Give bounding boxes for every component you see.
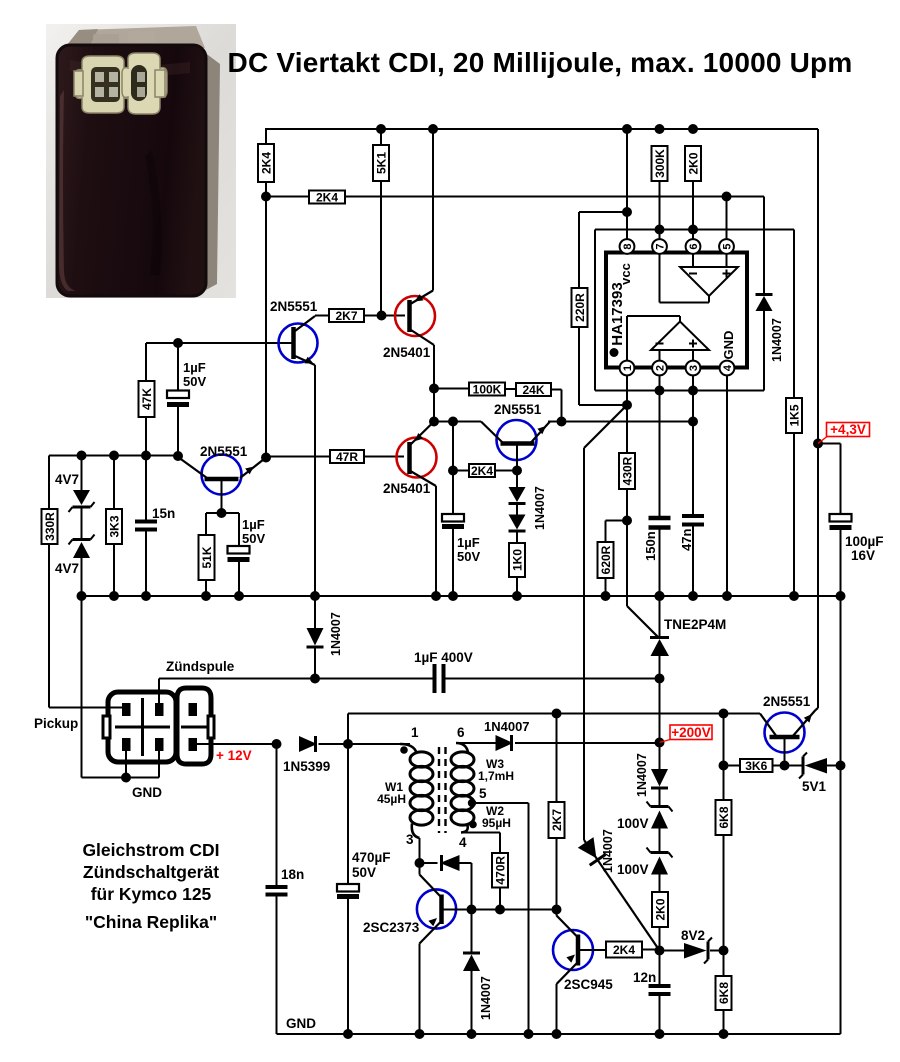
- svg-text:330R: 330R: [43, 512, 57, 541]
- node node +4.3V: [813, 439, 823, 449]
- svg-text:50V: 50V: [352, 865, 376, 880]
- op-amp comparator A (top): [680, 267, 738, 296]
- capacitor 470uF 50V: [337, 884, 359, 892]
- resistor 430R: [619, 453, 635, 489]
- svg-text:2K4: 2K4: [613, 943, 635, 957]
- wire inverter feed corner: [347, 714, 349, 745]
- svg-text:2K4: 2K4: [260, 152, 274, 174]
- wire Q4 collector column: [435, 486, 437, 596]
- transistor Q10 2SC945: [553, 930, 593, 970]
- wire bias wire down leg: [594, 230, 596, 391]
- transformer secondary W3/W2: [456, 743, 468, 752]
- wire 6K8b lead: [723, 951, 725, 977]
- wire tap 5 column: [528, 803, 530, 1034]
- wire baker left lead: [420, 862, 438, 864]
- wire Q9 base wire: [442, 909, 557, 911]
- svg-text:1µF: 1µF: [457, 535, 480, 550]
- wire 220R to pin8: [579, 211, 627, 213]
- capacitor 1uF 50V: [167, 391, 189, 399]
- wire tap 5 wire: [472, 802, 529, 804]
- op-amp U1 HA17393 package: [606, 253, 747, 368]
- wire 5V1 right lead: [827, 765, 841, 767]
- wire Q3 base row: [206, 512, 239, 514]
- node GND junction 12n: [655, 1029, 665, 1039]
- wire 1K0 bottom lead: [516, 577, 518, 596]
- wire freewheel top lead: [471, 910, 473, 954]
- wire supply row mid: [319, 743, 411, 745]
- capacitor 47n: [682, 514, 704, 518]
- wire D5a top lead: [516, 471, 518, 488]
- svg-text:Pickup: Pickup: [34, 716, 78, 731]
- svg-text:4V7: 4V7: [55, 472, 79, 487]
- wire 5K1 bottom lead: [380, 181, 382, 316]
- svg-text:1N4007: 1N4007: [329, 612, 343, 656]
- wire comparator input wire A: [434, 421, 481, 423]
- svg-text:100V: 100V: [617, 862, 649, 877]
- wire TNE cathode lead: [659, 596, 661, 637]
- svg-text:1N4007: 1N4007: [635, 753, 649, 797]
- svg-text:1: 1: [411, 725, 419, 740]
- capacitor 1uF 50V #2: [228, 546, 250, 554]
- wire 47R left lead: [266, 456, 330, 458]
- svg-text:150n: 150n: [643, 531, 658, 561]
- node junction Q2 base: [377, 311, 387, 321]
- wire 220R bottom lead: [578, 327, 580, 405]
- svg-text:100µF: 100µF: [845, 534, 884, 549]
- wire 330R top leg: [48, 456, 50, 510]
- node rail junction 1K0: [512, 591, 522, 601]
- W1 phase dot: [400, 746, 408, 754]
- label +4,3V: [827, 423, 870, 437]
- wire 3K3 top lead: [113, 456, 115, 510]
- wire 3K6 right lead: [773, 765, 785, 767]
- wire pin5 lead: [726, 197, 728, 241]
- svg-text:Gleichstrom CDI: Gleichstrom CDI: [82, 840, 219, 860]
- svg-text:2SC945: 2SC945: [564, 977, 613, 992]
- wire 18n top lead: [276, 744, 278, 887]
- wire 8V2 right lead: [710, 950, 724, 952]
- wire top rail: [266, 128, 818, 130]
- pin 7: [652, 239, 667, 254]
- node junction Q3 base: [217, 508, 227, 518]
- wire 2K4 bottom lead: [265, 182, 267, 458]
- node junction 470uF column: [343, 739, 353, 749]
- svg-text:100V: 100V: [617, 816, 649, 831]
- wire 2K4c right lead: [642, 949, 660, 951]
- node junction pin8 column top: [622, 124, 632, 134]
- wire baker corner down: [471, 863, 473, 910]
- wire pin7-pin6 bias wire: [595, 229, 794, 231]
- svg-text:2: 2: [655, 365, 667, 371]
- comparator B input leads: [659, 350, 661, 361]
- capacitor 100uF 16V: [830, 514, 852, 522]
- svg-text:50V: 50V: [242, 531, 265, 546]
- svg-text:6K8: 6K8: [717, 982, 731, 1004]
- svg-text:45µH: 45µH: [377, 792, 406, 806]
- node junction 2K4 row: [261, 192, 271, 202]
- wire 47n bottom lead: [692, 525, 694, 597]
- wire 100uF bottom lead: [840, 529, 842, 596]
- wire HT feed wire: [515, 742, 660, 744]
- wire 15n top lead: [145, 456, 147, 522]
- node GND junction Q9e: [415, 1029, 425, 1039]
- wire 1uF-3 top lead: [452, 422, 454, 471]
- wire 1uF-2 bottom lead: [238, 560, 240, 596]
- wire HT z1 link: [659, 788, 661, 806]
- wire ignition coil wire left: [159, 678, 434, 680]
- wire gnd pin left lead: [125, 751, 127, 778]
- wire 470R bottom lead: [499, 888, 501, 910]
- wire 2K4-2 left lead: [453, 470, 469, 472]
- wire 8V2 left lead: [660, 950, 685, 952]
- wire inverter top wire: [348, 713, 760, 715]
- node node pin1 output: [622, 400, 632, 410]
- wire zener bottom lead: [81, 558, 83, 778]
- wire pin6 lead: [692, 181, 694, 240]
- wire TNE gate diagonal: [627, 606, 658, 637]
- wire baker right lead: [460, 862, 472, 864]
- svg-text:18n: 18n: [281, 867, 304, 882]
- svg-text:vcc: vcc: [618, 263, 633, 285]
- wire pin2 column: [659, 375, 661, 516]
- zener diode 8V2: [684, 943, 707, 959]
- svg-text:GND: GND: [286, 1016, 316, 1031]
- wire 3K6 left lead: [724, 765, 741, 767]
- wire 2K0b bottom lead: [659, 927, 661, 951]
- svg-text:16V: 16V: [851, 548, 875, 563]
- svg-text:3: 3: [406, 832, 414, 847]
- wire pin4 xfmr wire: [461, 832, 500, 834]
- svg-text:95µH: 95µH: [482, 816, 511, 830]
- wire gate pulse diagonal: [584, 840, 660, 951]
- node junction TNE anode: [655, 674, 665, 684]
- svg-text:470µF: 470µF: [352, 850, 391, 865]
- svg-text:GND: GND: [132, 785, 162, 800]
- svg-text:+200V: +200V: [671, 725, 710, 740]
- photo CDI unit right side face: [204, 52, 220, 291]
- svg-text:1K0: 1K0: [511, 549, 525, 571]
- wire 100uF top lead: [840, 444, 842, 515]
- svg-text:1N4007: 1N4007: [533, 486, 547, 530]
- wire 1K5 top lead: [793, 230, 795, 399]
- node junction Q6 base: [780, 761, 790, 771]
- svg-text:8: 8: [622, 243, 634, 249]
- wire 1uF-3 bottom lead: [452, 527, 454, 596]
- svg-text:300K: 300K: [653, 149, 667, 178]
- wire HT diode lead: [659, 743, 661, 770]
- W2 tap node: [468, 799, 476, 807]
- wire Q10 base lead: [578, 949, 606, 951]
- node junction 2K4-2 lead: [448, 466, 458, 476]
- pin 2: [652, 361, 667, 376]
- wire pin4 column: [726, 375, 728, 596]
- wire 6K8b bottom lead: [723, 1010, 725, 1034]
- wire 1K5 bottom lead: [793, 433, 795, 596]
- resistor 470R: [492, 853, 508, 888]
- wire ignition coil wire right: [445, 678, 660, 680]
- svg-text:+ 12V: + 12V: [216, 748, 252, 763]
- resistor 2K7: [329, 309, 364, 322]
- svg-text:47n: 47n: [679, 529, 694, 551]
- wire comparator diagonal: [584, 405, 627, 448]
- svg-text:für Kymco 125: für Kymco 125: [91, 884, 212, 904]
- node GND junction 6K8b: [719, 1029, 729, 1039]
- wire freewheel bottom lead: [471, 971, 473, 1034]
- resistor 2K4: [606, 942, 642, 958]
- wire 2K7 to Q2 base: [364, 315, 405, 317]
- W2 phase dot: [469, 821, 477, 829]
- wire right edge vertical: [817, 129, 819, 708]
- svg-text:24K: 24K: [522, 383, 544, 397]
- svg-text:2SC2373: 2SC2373: [363, 920, 420, 935]
- wire TNE anode lead: [659, 656, 661, 743]
- transistor Q1 2N5551: [279, 324, 318, 363]
- capacitor 12n: [649, 984, 671, 988]
- node junction Q5 emitter wire: [557, 417, 567, 427]
- svg-text:+4,3V: +4,3V: [830, 422, 866, 437]
- wire 100K-24K link: [505, 388, 516, 390]
- wire 220R top lead: [578, 212, 580, 288]
- diode 1N4007 #3: [496, 735, 514, 751]
- wire 2K4 top lead: [265, 128, 267, 144]
- node rail junction 15n: [141, 591, 151, 601]
- wire Q6 base lead: [784, 737, 786, 766]
- resistor 2K7: [549, 802, 565, 838]
- wire Q2 collector column: [433, 345, 435, 422]
- node junction cap column: [448, 417, 458, 427]
- wire 12n top lead: [659, 951, 661, 987]
- wire 1K0 top lead: [516, 531, 518, 543]
- node junction 1uF/Q3 collector: [173, 451, 183, 461]
- resistor 2K4: [258, 144, 274, 182]
- transistor Q3 2N5551: [202, 455, 242, 495]
- photo CDI unit right connector: [122, 53, 167, 114]
- diode 1N4007 freewheel: [463, 952, 480, 955]
- svg-text:2N5551: 2N5551: [494, 402, 542, 417]
- node junction 5V1 right: [836, 761, 846, 771]
- node junction zener col: [77, 451, 87, 461]
- pin 4: [720, 361, 735, 376]
- node rail junction Q1e: [310, 591, 320, 601]
- node junction 3K6: [719, 761, 729, 771]
- node junction 2K7 top: [552, 709, 562, 719]
- node node oscillator control: [655, 946, 665, 956]
- resistor 2K4: [309, 191, 345, 204]
- wire gate pulse column: [583, 448, 585, 840]
- svg-text:1µF: 1µF: [242, 517, 265, 532]
- wire comparator input wire B: [548, 421, 693, 423]
- svg-text:3: 3: [688, 365, 700, 371]
- capacitor 1uF 50V #3: [442, 514, 464, 522]
- node junction 6K8b top: [719, 946, 729, 956]
- wire 6K8a lead: [723, 766, 725, 801]
- node GND junction tap5: [524, 1029, 534, 1039]
- svg-text:2N5401: 2N5401: [383, 481, 431, 496]
- wire 2K7 bottom lead: [556, 838, 558, 910]
- svg-text:1µF: 1µF: [183, 360, 206, 375]
- svg-text:3K6: 3K6: [745, 759, 767, 773]
- resistor 24K: [516, 383, 551, 396]
- wire row 2K4h left: [266, 196, 309, 198]
- node junction pin5 top wire: [722, 192, 732, 202]
- node rail junction 150n: [655, 591, 665, 601]
- node rail junction 1K5: [789, 591, 799, 601]
- wire 100K left lead: [434, 388, 469, 390]
- capacitor 15n: [135, 520, 157, 524]
- resistor 6K8: [716, 800, 732, 835]
- wire 620R top link: [606, 520, 628, 522]
- wire 1uF-2 top lead: [238, 513, 240, 546]
- svg-text:6: 6: [457, 725, 465, 740]
- photo CDI unit top face: [63, 26, 205, 50]
- svg-text:2K4: 2K4: [471, 464, 493, 478]
- svg-text:3K3: 3K3: [108, 515, 122, 537]
- svg-text:2K4: 2K4: [316, 191, 338, 205]
- resistor 6K8: [716, 976, 732, 1010]
- wire 6K8a top lead: [723, 714, 725, 766]
- wire 3K3 bottom lead: [113, 544, 115, 596]
- diode 1N4007: [756, 296, 773, 311]
- node junction Q2 emitter column top: [428, 124, 438, 134]
- resistor 100K: [469, 383, 505, 396]
- node GND junction 470uF: [343, 1029, 353, 1039]
- svg-text:1K5: 1K5: [788, 404, 802, 426]
- resistor 2K4: [469, 464, 495, 477]
- wire 18n bottom lead: [276, 895, 278, 1035]
- label +200V: [670, 725, 712, 740]
- svg-text:"China Replika": "China Replika": [85, 912, 217, 932]
- connector plug left body: [108, 692, 176, 762]
- svg-text:1N4007: 1N4007: [484, 719, 530, 734]
- wire 47R to Q4 base: [364, 456, 404, 458]
- wire 1uF top lead: [177, 343, 179, 391]
- photo CDI unit backdrop: [46, 24, 236, 298]
- wire D-315 top lead: [314, 596, 316, 628]
- diode 1N5399: [299, 736, 317, 752]
- op-amp comparator B (bottom): [651, 322, 709, 351]
- resistor 620R: [598, 542, 614, 578]
- node junction 1uF base: [173, 338, 183, 348]
- node rail junction 1uF3: [448, 591, 458, 601]
- wire 220R to pin1 node: [579, 404, 627, 406]
- node junction 3K3 top: [109, 451, 119, 461]
- wire pickup wire: [49, 707, 126, 709]
- node junction 620R tap: [622, 516, 632, 526]
- transformer core: [438, 747, 440, 833]
- resistor 1K5: [786, 398, 802, 433]
- wire 470uF top lead: [347, 744, 349, 884]
- wire Q1 emitter column: [314, 365, 316, 596]
- svg-text:4V7: 4V7: [55, 561, 79, 576]
- transistor Q6 2N5551: [765, 713, 805, 753]
- svg-text:2K0: 2K0: [654, 898, 668, 920]
- wire gnd link right: [126, 777, 159, 779]
- diode 1N4007 diagonal: [578, 837, 597, 858]
- resistor 2K0: [685, 146, 701, 181]
- wire 15n bottom lead: [145, 530, 147, 597]
- pin 6: [686, 239, 701, 254]
- node junction Q5 base: [512, 466, 522, 476]
- node junction 2K4 column bottom: [261, 453, 271, 463]
- svg-text:1: 1: [622, 365, 634, 371]
- photo CDI unit body: [57, 45, 206, 296]
- wire +12V pin lead: [197, 743, 277, 745]
- connector left pins: [123, 704, 131, 716]
- wire pin5 net corner down: [763, 197, 765, 294]
- wire 1N4007 anode lead: [763, 311, 765, 391]
- wire 2K7 top lead: [556, 714, 558, 803]
- svg-text:DC Viertakt CDI, 20 Millijoule: DC Viertakt CDI, 20 Millijoule, max. 100…: [228, 47, 853, 78]
- svg-text:1,7mH: 1,7mH: [478, 769, 514, 783]
- node junction primary bottom: [415, 858, 425, 868]
- svg-text:GND: GND: [721, 331, 736, 360]
- svg-text:1N5399: 1N5399: [283, 759, 330, 774]
- resistor 47R: [330, 450, 364, 463]
- transistor Q4 2N5401: [397, 438, 437, 478]
- capacitor 18n: [266, 885, 288, 889]
- diode 1N4007 HT: [651, 769, 668, 787]
- svg-text:2K0: 2K0: [687, 152, 701, 174]
- wire pin7 lead: [659, 181, 661, 240]
- node junction baker/base: [467, 905, 477, 915]
- svg-text:620R: 620R: [599, 545, 613, 574]
- capacitor 1uF 400V: [433, 664, 437, 693]
- node GND junction Q10e: [552, 1029, 562, 1039]
- wire 6K8a bottom lead: [723, 835, 725, 951]
- wire 430R bottom lead: [626, 489, 628, 606]
- svg-text:1N4007: 1N4007: [479, 976, 493, 1020]
- resistor 300K: [652, 146, 668, 181]
- svg-text:2N5551: 2N5551: [763, 694, 811, 709]
- transistor Q5 2N5551: [497, 420, 537, 460]
- wire IC output wire: [595, 390, 764, 392]
- comparator A input leads: [692, 253, 694, 267]
- wire 620R top lead: [605, 521, 607, 543]
- comparator B output to pin1: [679, 316, 681, 322]
- transistor Q9 2SC2373: [417, 889, 456, 928]
- wire 51K top lead: [205, 513, 207, 535]
- wire 1uF-3 mid lead: [452, 471, 454, 515]
- wire Q1 base wire: [146, 342, 292, 344]
- wire pin3 column xfmr: [419, 838, 421, 863]
- wire zener top lead: [81, 456, 83, 491]
- svg-text:8V2: 8V2: [681, 928, 705, 943]
- resistor 2K0: [652, 892, 668, 927]
- node junction 470R bottom: [495, 905, 505, 915]
- svg-text:51K: 51K: [200, 546, 214, 568]
- pin 3: [686, 361, 701, 376]
- wire 620R bottom lead: [605, 578, 607, 596]
- wire 150n bottom lead: [659, 528, 661, 597]
- diode 1N4007 #2: [307, 628, 324, 646]
- photo CDI unit connector bumps: [93, 34, 119, 47]
- svg-text:220R: 220R: [573, 293, 587, 322]
- node rail junction Q4c: [431, 591, 441, 601]
- wire Q10 emitter column: [556, 984, 558, 1034]
- wire 470R top lead: [499, 833, 501, 854]
- svg-text:4: 4: [722, 364, 734, 371]
- zener 100V #2: [651, 851, 669, 854]
- wire GND rail: [277, 1033, 841, 1035]
- wire 2K4-2 right lead: [495, 470, 517, 472]
- node junction 5K1 top: [376, 124, 386, 134]
- svg-text:50V: 50V: [457, 549, 480, 564]
- resistor 3K3: [106, 509, 122, 544]
- resistor 330R: [42, 509, 58, 544]
- resistor 220R: [572, 288, 588, 327]
- node rail junction zener: [77, 591, 87, 601]
- node node +12V: [272, 739, 282, 749]
